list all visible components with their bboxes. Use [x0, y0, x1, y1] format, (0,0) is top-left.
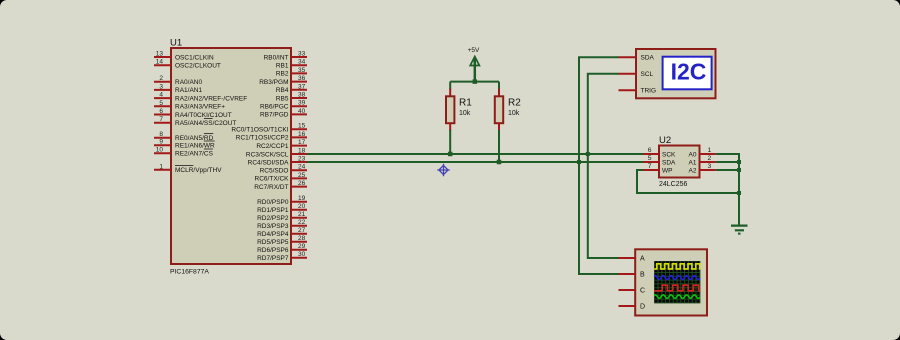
wire U2 A0/A1/A2 to ground rail [716, 154, 739, 225]
U1 pin 24 RC5 [291, 169, 307, 171]
ground symbol [731, 225, 748, 227]
svg-text:5: 5 [159, 100, 163, 107]
svg-text:10k: 10k [508, 110, 520, 117]
oscilloscope pin B [619, 273, 636, 275]
svg-text:14: 14 [156, 59, 164, 66]
memory U2 24LC256 body [659, 146, 700, 178]
svg-text:R1: R1 [459, 98, 472, 109]
svg-text:25: 25 [298, 172, 306, 179]
wire from +5V to resistor tops [450, 81, 499, 83]
oscilloscope trace channel A (yellow square wave) [654, 264, 700, 269]
svg-text:PIC16F877A: PIC16F877A [170, 269, 209, 276]
svg-text:RC0/T1OSO/T1CKI: RC0/T1OSO/T1CKI [231, 127, 288, 134]
microcontroller U1 PIC16F877A body [171, 48, 291, 264]
I2C debugger pin SDA [619, 56, 637, 58]
svg-text:RE1/AN6/WR: RE1/AN6/WR [175, 143, 215, 150]
svg-text:SCL: SCL [641, 71, 654, 78]
U2 pin 1 A0 [700, 153, 716, 155]
svg-text:RD1/PSP1: RD1/PSP1 [257, 207, 289, 214]
svg-text:SDA: SDA [662, 159, 676, 166]
U1 pin 29 RD6 [291, 249, 307, 251]
svg-text:R2: R2 [508, 98, 521, 109]
wire SCL bus: U1 pin18 to U2 SCK [307, 153, 643, 155]
U1 pin 8 RE0 [154, 137, 171, 139]
svg-text:38: 38 [298, 92, 306, 99]
svg-text:4: 4 [159, 92, 163, 99]
junction I2C SCL vertical x SCL bus [586, 152, 590, 156]
svg-text:RC4/SDI/SDA: RC4/SDI/SDA [248, 159, 289, 166]
U2 pin 7 WP [643, 169, 659, 171]
svg-text:RA5/AN4/SS/C2OUT: RA5/AN4/SS/C2OUT [175, 120, 236, 127]
svg-text:U1: U1 [170, 38, 182, 49]
U1 pin 5 RA3 [154, 105, 171, 107]
U2 pin 6 SCK [643, 153, 659, 155]
svg-text:1: 1 [708, 147, 712, 154]
svg-text:27: 27 [298, 227, 306, 234]
svg-text:RC6/TX/CK: RC6/TX/CK [255, 176, 290, 183]
svg-text:MCLR/Vpp/THV: MCLR/Vpp/THV [175, 167, 222, 174]
svg-text:RD0/PSP0: RD0/PSP0 [257, 199, 289, 206]
U1 pin 26 RC7 [291, 186, 307, 188]
junction A2 [737, 168, 741, 172]
svg-text:RB3/PGM: RB3/PGM [259, 79, 288, 86]
svg-text:20: 20 [298, 203, 306, 210]
svg-text:5: 5 [648, 155, 652, 162]
svg-text:OSC1/CLKIN: OSC1/CLKIN [175, 54, 214, 61]
svg-text:I2C: I2C [671, 59, 707, 85]
I2C debugger body [636, 49, 716, 98]
svg-text:RC2/CCP1: RC2/CCP1 [256, 143, 289, 150]
svg-text:RA2/AN2/VREF-/CVREF: RA2/AN2/VREF-/CVREF [175, 95, 247, 102]
U1 pin 36 RB3 [291, 81, 307, 83]
svg-text:RA4/T0CKI/C1OUT: RA4/T0CKI/C1OUT [175, 112, 232, 119]
wire I2C SDA to bus and oscilloscope B [579, 57, 619, 274]
svg-text:18: 18 [298, 148, 306, 155]
svg-text:RD2/PSP2: RD2/PSP2 [257, 215, 289, 222]
svg-text:6: 6 [648, 147, 652, 154]
oscilloscope pin A [619, 257, 636, 259]
svg-text:B: B [640, 272, 645, 279]
oscilloscope trace channel B (blue sine wave) [654, 276, 700, 280]
origin marker (blue crosshair) [437, 164, 449, 176]
U1 pin 34 RB1 [291, 64, 307, 66]
svg-text:21: 21 [298, 211, 306, 218]
U1 pin 3 RA1 [154, 89, 171, 91]
U2 pin 5 SDA [643, 161, 659, 163]
svg-text:RB1: RB1 [276, 63, 289, 70]
U1 pin 22 RD3 [291, 225, 307, 227]
junction A1 [737, 160, 741, 164]
junction WP wire x ground rail [737, 191, 741, 195]
svg-text:RC7/RX/DT: RC7/RX/DT [254, 184, 288, 191]
U1 pin 15 RC0 [291, 128, 307, 130]
svg-text:28: 28 [298, 235, 306, 242]
svg-text:8: 8 [159, 131, 163, 138]
svg-text:RD5/PSP5: RD5/PSP5 [257, 239, 289, 246]
svg-text:34: 34 [298, 59, 306, 66]
svg-text:RE2/AN7/CS: RE2/AN7/CS [175, 151, 214, 158]
U1 pin 16 RC1 [291, 136, 307, 138]
I2C debugger screen [663, 57, 712, 90]
U1 pin 21 RD2 [291, 217, 307, 219]
svg-text:RB2: RB2 [276, 71, 289, 78]
oscilloscope body [635, 249, 707, 315]
U1 pin 25 RC6 [291, 177, 307, 179]
svg-text:1: 1 [159, 163, 163, 170]
svg-text:SDA: SDA [641, 55, 655, 62]
svg-text:33: 33 [298, 51, 306, 58]
U2 pin 2 A1 [700, 161, 716, 163]
U1 pin 9 RE1 [154, 144, 171, 146]
U1 pin 37 RB4 [291, 89, 307, 91]
svg-text:7: 7 [648, 163, 652, 170]
svg-text:40: 40 [298, 108, 306, 115]
svg-text:RD6/PSP6: RD6/PSP6 [257, 247, 289, 254]
U1 pin 1 MCLR [154, 169, 171, 171]
U2 pin 3 A2 [700, 169, 716, 171]
svg-text:26: 26 [298, 180, 306, 187]
U1 pin 14 OSC2 [154, 64, 171, 66]
svg-text:RD7/PSP7: RD7/PSP7 [257, 255, 289, 262]
svg-text:19: 19 [298, 195, 306, 202]
svg-text:A2: A2 [689, 167, 697, 174]
svg-text:10k: 10k [459, 110, 471, 117]
svg-text:2: 2 [159, 75, 163, 82]
svg-text:37: 37 [298, 83, 306, 90]
oscilloscope trace channel C (red square wave) [654, 285, 700, 291]
svg-text:C: C [640, 288, 645, 295]
svg-text:WP: WP [662, 167, 672, 174]
U1 pin 39 RB6 [291, 105, 307, 107]
svg-text:RA1/AN1: RA1/AN1 [175, 87, 202, 94]
svg-text:39: 39 [298, 100, 306, 107]
U1 pin 10 RE2 [154, 152, 171, 154]
svg-text:+5V: +5V [468, 47, 480, 54]
svg-text:SCK: SCK [662, 151, 676, 158]
U1 pin 6 RA4 [154, 114, 171, 116]
svg-text:RD3/PSP3: RD3/PSP3 [257, 223, 289, 230]
svg-text:RC3/SCK/SCL: RC3/SCK/SCL [246, 151, 289, 158]
svg-text:36: 36 [298, 75, 306, 82]
U1 pin 7 RA5 [154, 122, 171, 124]
U1 pin 19 RD0 [291, 201, 307, 203]
oscilloscope pin C [619, 289, 636, 291]
svg-text:A1: A1 [689, 159, 697, 166]
wire U2 WP to ground rail [637, 170, 739, 193]
U1 pin 28 RD5 [291, 241, 307, 243]
wire SDA bus: U1 pin23 to U2 SDA [307, 161, 643, 163]
svg-text:A0: A0 [689, 151, 697, 158]
U1 pin 35 RB2 [291, 72, 307, 74]
svg-text:22: 22 [298, 219, 306, 226]
svg-text:24LC256: 24LC256 [659, 181, 688, 188]
svg-text:16: 16 [298, 131, 306, 138]
I2C debugger pin SCL [619, 73, 637, 75]
svg-text:RB4: RB4 [276, 87, 289, 94]
svg-text:RB6/PGC: RB6/PGC [260, 104, 289, 111]
svg-text:OSC2/CLKOUT: OSC2/CLKOUT [175, 63, 221, 70]
svg-text:7: 7 [159, 116, 163, 123]
power +5V symbol [470, 57, 479, 66]
svg-text:24: 24 [298, 164, 306, 171]
svg-text:30: 30 [298, 251, 306, 258]
oscilloscope pin D [619, 305, 636, 307]
resistor R1 [449, 82, 451, 90]
svg-text:13: 13 [156, 51, 164, 58]
junction I2C SDA vertical x SDA bus [577, 160, 581, 164]
svg-text:10: 10 [156, 147, 164, 154]
svg-text:3: 3 [708, 163, 712, 170]
U1 pin 38 RB5 [291, 97, 307, 99]
oscilloscope screen [654, 261, 700, 303]
svg-text:6: 6 [159, 108, 163, 115]
svg-text:RB5: RB5 [276, 95, 289, 102]
svg-text:29: 29 [298, 243, 306, 250]
U1 pin 18 RC3 [291, 153, 307, 155]
U1 pin 23 RC4 [291, 161, 307, 163]
svg-text:RB0/INT: RB0/INT [264, 54, 289, 61]
U1 pin 33 RB0 [291, 56, 307, 58]
junction R1 to SCL bus [448, 152, 453, 157]
U1 pin 20 RD1 [291, 209, 307, 211]
I2C debugger pin TRIG [619, 89, 637, 91]
svg-text:TRIG: TRIG [641, 88, 657, 95]
U1 pin 27 RD4 [291, 233, 307, 235]
svg-text:15: 15 [298, 123, 306, 130]
U1 pin 30 RD7 [291, 257, 307, 259]
svg-text:A: A [640, 256, 645, 263]
oscilloscope trace channel D (green sine wave) [654, 295, 700, 299]
U1 pin 2 RA0 [154, 81, 171, 83]
svg-text:17: 17 [298, 139, 306, 146]
svg-text:3: 3 [159, 83, 163, 90]
svg-text:RA0/AN0: RA0/AN0 [175, 79, 202, 86]
U1 pin 17 RC2 [291, 145, 307, 147]
svg-text:RC5/SDO: RC5/SDO [260, 168, 289, 175]
resistor R2 [498, 82, 500, 90]
U1 pin 13 OSC1 [154, 56, 171, 58]
svg-text:RC1/T1OSI/CCP2: RC1/T1OSI/CCP2 [236, 135, 289, 142]
U1 pin 4 RA2 [154, 97, 171, 99]
svg-text:23: 23 [298, 156, 306, 163]
svg-text:RA3/AN3/VREF+: RA3/AN3/VREF+ [175, 104, 225, 111]
svg-text:RB7/PGD: RB7/PGD [260, 112, 289, 119]
wire I2C SCL to bus and oscilloscope A [588, 74, 619, 258]
svg-text:2: 2 [708, 155, 712, 162]
svg-text:D: D [640, 304, 645, 311]
U1 pin 40 RB7 [291, 113, 307, 115]
svg-text:RD4/PSP4: RD4/PSP4 [257, 231, 289, 238]
junction R2 to SDA bus [497, 160, 502, 165]
svg-text:35: 35 [298, 67, 306, 74]
svg-text:U2: U2 [659, 135, 671, 146]
junction at +5V stem [473, 79, 478, 84]
svg-text:9: 9 [159, 139, 163, 146]
